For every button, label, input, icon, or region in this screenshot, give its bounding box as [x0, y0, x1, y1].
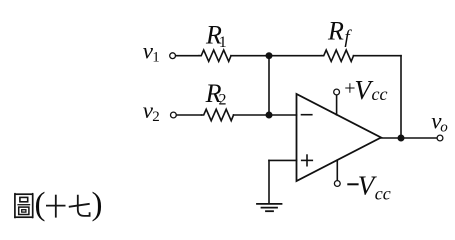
op-amp U1: [297, 94, 382, 181]
+Vcc stem: [336, 95, 338, 115]
wire: [400, 56, 402, 138]
svg-text:2: 2: [152, 109, 160, 125]
terminal -Vcc: [334, 181, 340, 187]
svg-text:cc: cc: [375, 184, 391, 204]
wire ground: [268, 160, 270, 203]
resistor R1: [199, 50, 231, 61]
node B: [266, 112, 273, 119]
terminal v1: [170, 53, 176, 59]
wire: [354, 55, 402, 57]
wire: [268, 56, 270, 115]
svg-text:2: 2: [219, 92, 227, 109]
svg-text:1: 1: [219, 34, 227, 51]
caption 十 (drawn): [46, 195, 66, 218]
wire: [234, 114, 297, 116]
-Vcc stem: [336, 160, 338, 180]
resistor R2: [202, 109, 234, 120]
wire: [269, 55, 322, 57]
svg-text:): ): [92, 187, 103, 223]
node output: [398, 135, 405, 142]
svg-text:R: R: [327, 17, 344, 46]
terminal +Vcc: [334, 89, 340, 95]
terminal v2: [171, 112, 177, 118]
svg-text:1: 1: [152, 49, 160, 65]
node A: [266, 52, 273, 59]
resistor Rf: [322, 50, 354, 61]
wire: [177, 114, 202, 116]
svg-text:(: (: [35, 187, 46, 223]
svg-text:o: o: [440, 119, 448, 135]
ground: [257, 204, 282, 211]
wire: [231, 55, 269, 57]
caption 七 (drawn): [69, 195, 90, 216]
op-amp minus input mark: [302, 114, 312, 116]
terminal vo: [437, 135, 443, 141]
wire: [176, 55, 199, 57]
wire plus input: [269, 159, 297, 161]
svg-text:cc: cc: [372, 84, 388, 104]
op-amp plus input mark: [302, 159, 313, 161]
wire output: [381, 137, 437, 139]
caption 圖 (drawn): [15, 193, 33, 218]
label -Vcc: [347, 183, 358, 185]
